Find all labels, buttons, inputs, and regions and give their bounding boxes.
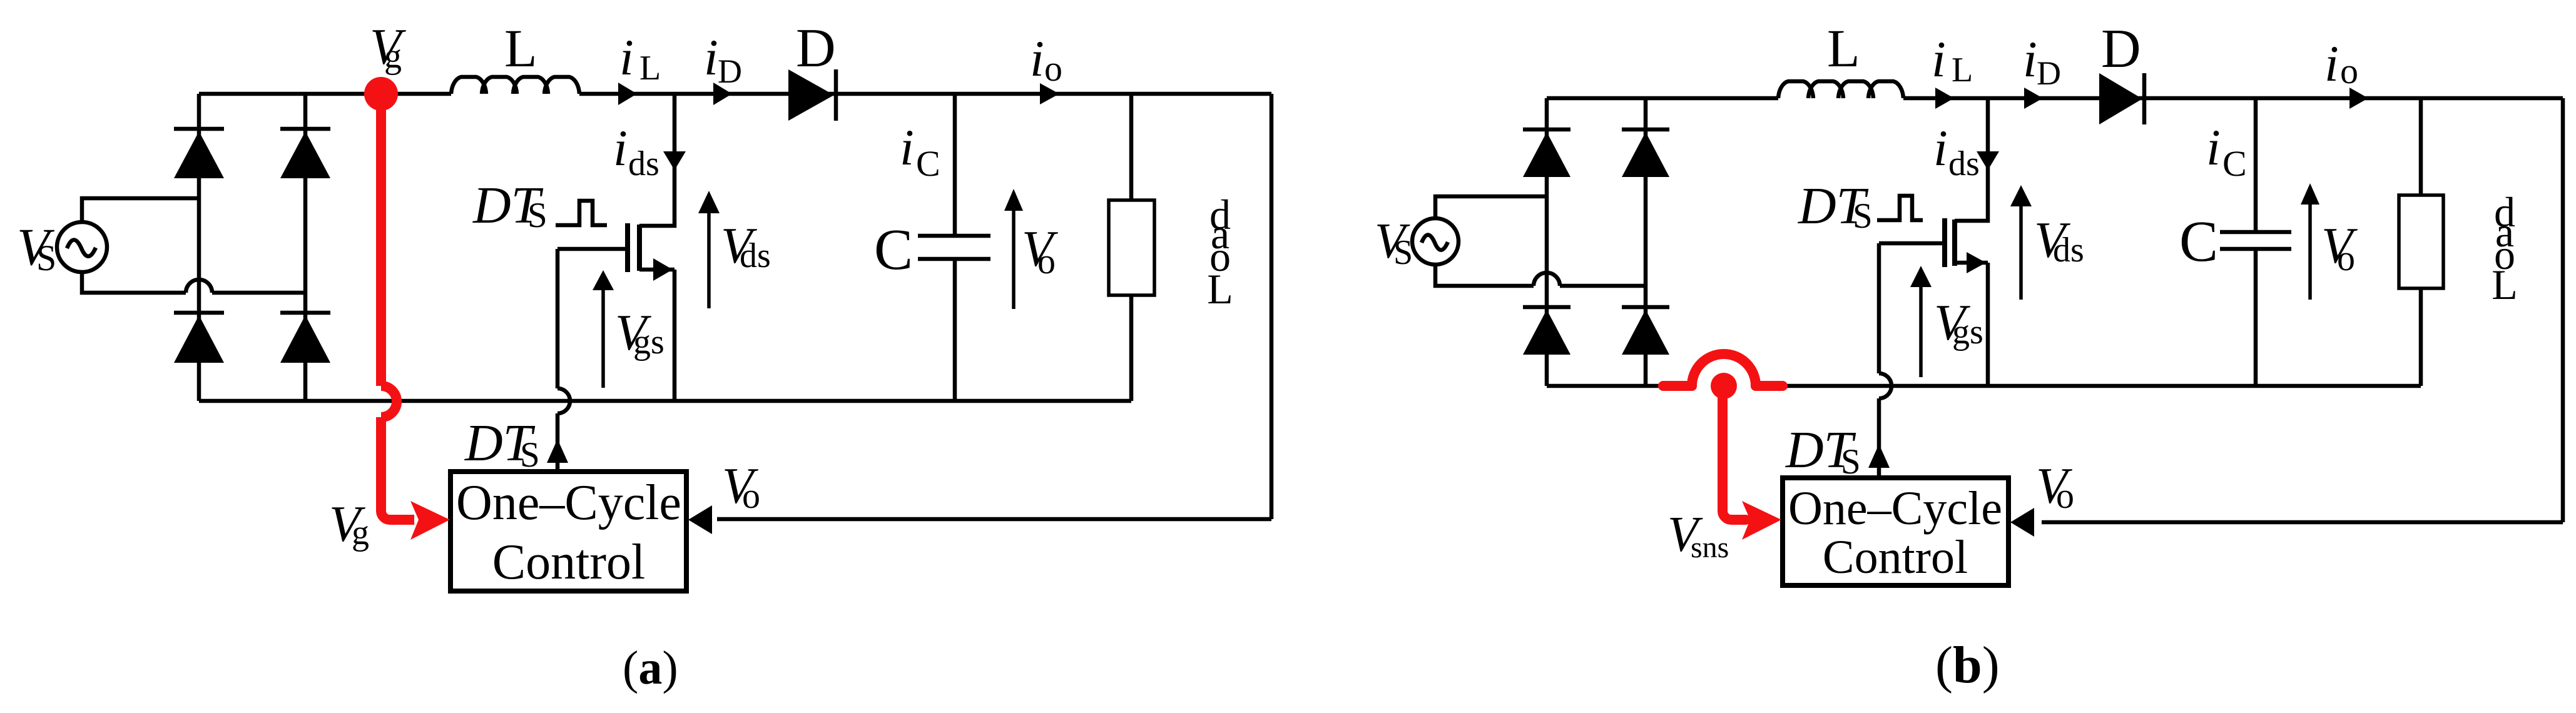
svg-text:o: o	[2337, 238, 2355, 278]
svg-text:D: D	[2101, 19, 2141, 79]
svg-text:ds: ds	[628, 144, 659, 183]
svg-text:i: i	[1933, 119, 1948, 176]
svg-text:L: L	[504, 18, 537, 78]
svg-text:C: C	[2222, 143, 2247, 184]
svg-text:(b): (b)	[1935, 636, 2000, 694]
svg-text:i: i	[704, 29, 718, 86]
svg-text:D: D	[2037, 54, 2061, 92]
svg-text:One–Cycle: One–Cycle	[456, 475, 681, 530]
svg-text:o: o	[1044, 48, 1062, 89]
svg-text:ds: ds	[1948, 144, 1980, 183]
svg-text:Control: Control	[1823, 531, 1968, 584]
svg-text:o: o	[742, 475, 760, 516]
svg-text:i: i	[619, 29, 634, 86]
svg-text:L: L	[2492, 261, 2518, 308]
svg-text:S: S	[520, 435, 540, 475]
svg-text:L: L	[1827, 18, 1860, 78]
svg-text:o: o	[2340, 51, 2358, 91]
svg-text:i: i	[613, 119, 628, 176]
svg-text:S: S	[1853, 196, 1873, 236]
svg-text:i: i	[2206, 119, 2221, 176]
svg-text:gs: gs	[1952, 313, 1983, 351]
svg-text:Control: Control	[492, 535, 645, 590]
svg-text:C: C	[874, 218, 913, 282]
svg-text:o: o	[2056, 475, 2074, 516]
svg-text:o: o	[1037, 241, 1056, 281]
svg-text:g: g	[352, 513, 369, 552]
svg-text:i: i	[2324, 35, 2339, 92]
svg-text:L: L	[1207, 265, 1233, 313]
svg-text:i: i	[2023, 31, 2037, 88]
svg-text:S: S	[1841, 442, 1861, 482]
svg-text:ds: ds	[2053, 231, 2084, 270]
svg-text:ds: ds	[740, 236, 771, 275]
svg-text:L: L	[1952, 51, 1973, 89]
svg-text:One–Cycle: One–Cycle	[1788, 482, 2002, 535]
svg-text:S: S	[527, 196, 547, 235]
svg-text:i: i	[1932, 31, 1946, 88]
svg-text:C: C	[916, 143, 940, 184]
svg-text:S: S	[1393, 233, 1413, 272]
svg-text:i: i	[1030, 30, 1044, 87]
svg-text:S: S	[36, 238, 56, 278]
svg-text:D: D	[796, 18, 836, 79]
svg-text:L: L	[639, 49, 661, 88]
svg-text:i: i	[900, 119, 914, 176]
svg-text:D: D	[718, 53, 742, 90]
svg-text:g: g	[384, 37, 402, 76]
svg-text:C: C	[2179, 210, 2218, 274]
svg-text:(a): (a)	[623, 642, 678, 694]
svg-text:sns: sns	[1691, 531, 1729, 564]
svg-text:gs: gs	[633, 323, 664, 362]
